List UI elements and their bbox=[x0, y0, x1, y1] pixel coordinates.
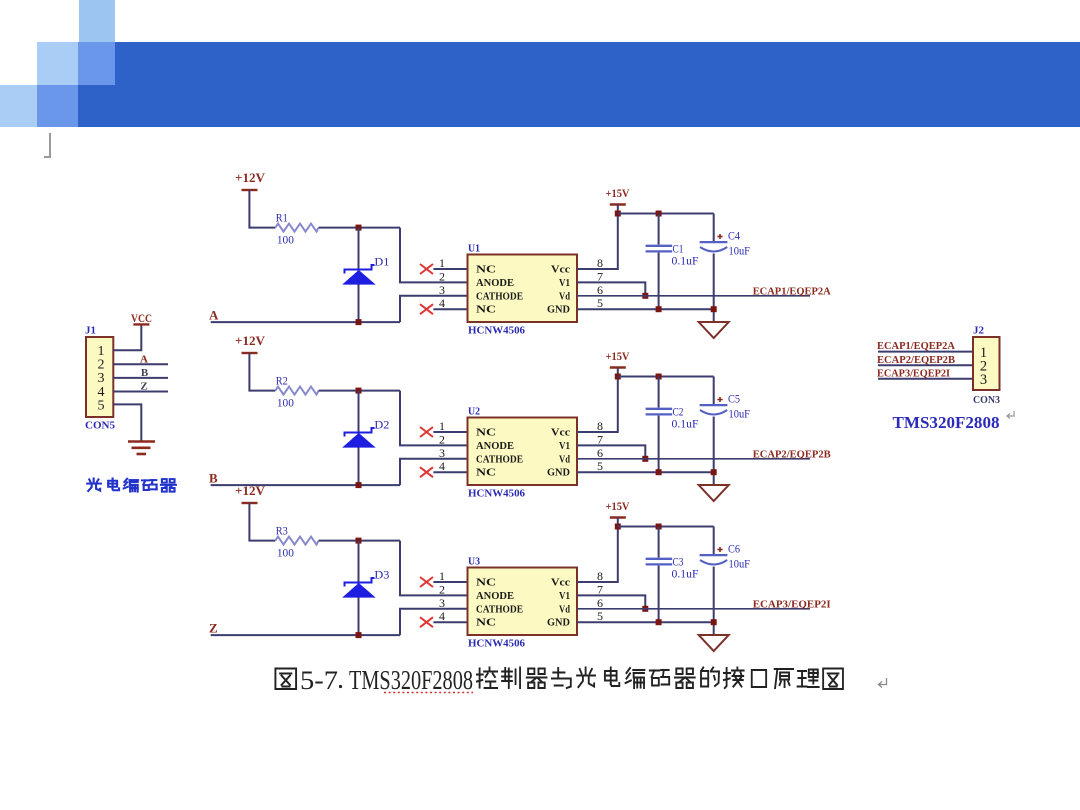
svg-text:R1: R1 bbox=[276, 211, 288, 225]
plus sign of C5 bbox=[717, 397, 722, 402]
wire GND pin 5 of U2 bbox=[577, 471, 714, 473]
wire Z line up to CATHODE pin 3 of U3 bbox=[400, 609, 468, 635]
svg-text:3: 3 bbox=[439, 596, 445, 610]
resistor R3 bbox=[275, 537, 318, 545]
svg-text:100: 100 bbox=[277, 396, 294, 410]
diode D3 branch wire bbox=[358, 541, 360, 636]
svg-text:B: B bbox=[209, 470, 218, 485]
svg-text:6: 6 bbox=[597, 283, 603, 297]
wire net ECAP2/EQEP2B to J2 pin 2 bbox=[878, 364, 973, 366]
wire R3 to node bbox=[319, 540, 400, 542]
junction C4 bottom bbox=[711, 306, 717, 312]
svg-text:Vcc: Vcc bbox=[551, 265, 571, 276]
diode D2 bbox=[345, 428, 375, 447]
svg-text:NC: NC bbox=[476, 428, 496, 439]
svg-text:1: 1 bbox=[439, 569, 445, 583]
pin 4 stub of U1 bbox=[433, 308, 467, 310]
svg-text:100: 100 bbox=[277, 546, 294, 560]
optocoupler U2 body bbox=[468, 418, 578, 486]
junction +15V rail channel 2 bbox=[615, 374, 621, 380]
svg-text:7: 7 bbox=[597, 432, 603, 446]
svg-text:NC: NC bbox=[476, 578, 496, 589]
no-connect X on pin 1 of U3 bbox=[420, 577, 433, 587]
svg-text:10uF: 10uF bbox=[729, 244, 751, 258]
svg-text:A: A bbox=[209, 307, 219, 322]
svg-text:C5: C5 bbox=[728, 392, 740, 406]
wire B line up to CATHODE pin 3 of U2 bbox=[400, 459, 468, 485]
svg-text:ECAP3/EQEP2I: ECAP3/EQEP2I bbox=[753, 598, 831, 610]
svg-text:+12V: +12V bbox=[235, 483, 266, 498]
label 光电编码器 (photoelectric encoder) bbox=[87, 478, 101, 490]
junction C6 bottom bbox=[711, 619, 717, 625]
svg-text:C4: C4 bbox=[728, 229, 740, 243]
svg-text:CATHODE: CATHODE bbox=[476, 604, 523, 615]
wire J1 pin 2 stub net A bbox=[113, 363, 168, 365]
junction C2 bottom bbox=[656, 469, 662, 475]
pin 1 stub of U2 bbox=[433, 431, 467, 433]
junction V1/Vd channel 1 bbox=[642, 293, 648, 299]
svg-text:ECAP1/EQEP2A: ECAP1/EQEP2A bbox=[877, 340, 955, 352]
ground symbol channel 2 bbox=[699, 485, 729, 501]
svg-text:TMS320F2808: TMS320F2808 bbox=[893, 413, 1000, 432]
svg-text:CATHODE: CATHODE bbox=[476, 291, 523, 302]
svg-text:Vd: Vd bbox=[559, 291, 570, 302]
svg-text:100: 100 bbox=[277, 233, 294, 247]
connector J2 body bbox=[973, 337, 1000, 390]
svg-text:U2: U2 bbox=[468, 407, 480, 418]
net line Z (left) bbox=[211, 634, 400, 636]
capacitor C2 bbox=[658, 377, 660, 408]
svg-text:0.1uF: 0.1uF bbox=[672, 417, 699, 431]
plus sign of C6 bbox=[717, 547, 722, 552]
junction C1 bottom bbox=[656, 306, 662, 312]
svg-text:1: 1 bbox=[439, 256, 445, 270]
svg-text:R3: R3 bbox=[276, 524, 288, 538]
power VCC symbol bbox=[133, 323, 149, 325]
svg-text:Vcc: Vcc bbox=[551, 428, 571, 439]
svg-text:5: 5 bbox=[98, 398, 105, 413]
no-connect X on pin 4 of U2 bbox=[420, 467, 433, 477]
junction at R3 output bbox=[356, 538, 362, 544]
wire +15V rail to capacitors channel 1 bbox=[618, 213, 714, 215]
junction of D2 on B line bbox=[356, 482, 362, 488]
svg-text:CON3: CON3 bbox=[973, 394, 1000, 406]
capacitor C4 electrolytic bbox=[713, 214, 715, 243]
wire +15V to Vcc pin 8 of U3 bbox=[577, 518, 618, 583]
wire V1 pin 7 of U1 to Vd bbox=[577, 282, 645, 295]
wire GND pin 5 of U3 bbox=[577, 621, 714, 623]
capacitor C6 electrolytic bbox=[713, 527, 715, 556]
svg-text:+12V: +12V bbox=[235, 333, 266, 348]
net line B (left) bbox=[211, 484, 400, 486]
svg-text:D3: D3 bbox=[374, 568, 389, 582]
svg-text:Vd: Vd bbox=[559, 454, 570, 465]
svg-text:Z: Z bbox=[140, 381, 147, 393]
svg-text:8: 8 bbox=[597, 256, 603, 270]
svg-text:5: 5 bbox=[597, 609, 603, 623]
capacitor C1 bbox=[658, 214, 660, 245]
svg-text:GND: GND bbox=[547, 305, 570, 316]
svg-text:V1: V1 bbox=[559, 278, 570, 289]
svg-text:J1: J1 bbox=[85, 326, 96, 337]
no-connect X on pin 1 of U1 bbox=[420, 264, 433, 274]
svg-text:CON5: CON5 bbox=[85, 420, 115, 432]
svg-text:Vd: Vd bbox=[559, 604, 570, 615]
wire A line up to CATHODE pin 3 of U1 bbox=[400, 296, 468, 322]
wire +15V to Vcc pin 8 of U1 bbox=[577, 205, 618, 270]
caption 图5-7 TMS320F2808 controller and photoelectric encoder interface schematic bbox=[275, 669, 296, 690]
svg-text:+15V: +15V bbox=[606, 499, 630, 513]
ground symbol channel 1 bbox=[699, 322, 729, 338]
junction +15V rail channel 3 bbox=[615, 524, 621, 530]
svg-text:R2: R2 bbox=[276, 374, 288, 388]
junction C2 top bbox=[656, 374, 662, 380]
wire Vd pin 6 of U2 net ECAP2/EQEP2B bbox=[577, 458, 810, 460]
junction V1/Vd channel 2 bbox=[642, 456, 648, 462]
svg-text:C6: C6 bbox=[728, 542, 740, 556]
wire J1 pin 3 stub net B bbox=[113, 377, 168, 379]
svg-text:ANODE: ANODE bbox=[476, 591, 514, 602]
svg-text:ECAP2/EQEP2B: ECAP2/EQEP2B bbox=[877, 354, 956, 366]
wire GND pin 5 of U1 bbox=[577, 308, 714, 310]
plus sign of C4 bbox=[717, 234, 722, 239]
svg-text:ECAP1/EQEP2A: ECAP1/EQEP2A bbox=[753, 285, 831, 297]
junction at R2 output bbox=[356, 388, 362, 394]
gray corner bracket mark bbox=[49, 133, 51, 157]
no-connect X on pin 4 of U3 bbox=[420, 617, 433, 627]
svg-text:NC: NC bbox=[476, 618, 496, 629]
ground symbol channel 3 bbox=[699, 635, 729, 651]
pin 1 stub of U3 bbox=[433, 581, 467, 583]
diode D1 bbox=[345, 265, 375, 284]
diode D3 bbox=[345, 578, 375, 597]
diode D2 branch wire bbox=[358, 391, 360, 486]
wire Vd pin 6 of U1 net ECAP1/EQEP2A bbox=[577, 295, 810, 297]
junction C3 bottom bbox=[656, 619, 662, 625]
svg-text:2: 2 bbox=[439, 582, 445, 596]
resistor R2 bbox=[275, 387, 318, 395]
svg-text:+15V: +15V bbox=[606, 186, 630, 200]
pin 4 stub of U2 bbox=[433, 471, 467, 473]
net line A (left) bbox=[211, 321, 400, 323]
capacitor C3 bbox=[658, 527, 660, 558]
svg-text:ECAP3/EQEP2I: ECAP3/EQEP2I bbox=[877, 367, 950, 379]
svg-text:5: 5 bbox=[597, 459, 603, 473]
optocoupler U3 body bbox=[468, 568, 578, 636]
wire node down to ANODE pin 2 of U3 bbox=[400, 541, 468, 596]
wire +15V rail to capacitors channel 3 bbox=[618, 526, 714, 528]
svg-text:7: 7 bbox=[597, 582, 603, 596]
svg-text:+12V: +12V bbox=[235, 170, 266, 185]
svg-text:5-7: 5-7 bbox=[300, 666, 338, 695]
paragraph return mark after caption bbox=[879, 678, 887, 688]
wire V1 pin 7 of U2 to Vd bbox=[577, 445, 645, 458]
svg-text:10uF: 10uF bbox=[729, 407, 751, 421]
svg-text:5: 5 bbox=[597, 296, 603, 310]
paragraph return mark after TMS320F2808 bbox=[1007, 411, 1014, 419]
svg-text:Vcc: Vcc bbox=[551, 578, 571, 589]
junction C5 bottom bbox=[711, 469, 717, 475]
svg-text:CATHODE: CATHODE bbox=[476, 454, 523, 465]
svg-text:8: 8 bbox=[597, 419, 603, 433]
svg-text:2: 2 bbox=[439, 269, 445, 283]
svg-text:0.1uF: 0.1uF bbox=[672, 567, 699, 581]
wire J1 pin 1 to VCC bbox=[113, 324, 141, 350]
junction of D1 on A line bbox=[356, 319, 362, 325]
junction of D3 on Z line bbox=[356, 632, 362, 638]
svg-text:V1: V1 bbox=[559, 591, 570, 602]
svg-text:1: 1 bbox=[439, 419, 445, 433]
wire node down to ANODE pin 2 of U2 bbox=[400, 391, 468, 446]
svg-text:ANODE: ANODE bbox=[476, 278, 514, 289]
wire +12V stem to R3 bbox=[249, 503, 275, 541]
svg-text:6: 6 bbox=[597, 446, 603, 460]
svg-text:ANODE: ANODE bbox=[476, 441, 514, 452]
ground symbol at J1 bbox=[128, 440, 155, 443]
svg-text:J2: J2 bbox=[973, 326, 984, 337]
wire Vd pin 6 of U3 net ECAP3/EQEP2I bbox=[577, 608, 810, 610]
svg-text:TMS320F2808: TMS320F2808 bbox=[349, 665, 473, 695]
wire node down to ANODE pin 2 of U1 bbox=[400, 228, 468, 283]
wire V1 pin 7 of U3 to Vd bbox=[577, 595, 645, 608]
wire R1 to node bbox=[319, 227, 400, 229]
svg-text:U1: U1 bbox=[468, 244, 480, 255]
svg-text:GND: GND bbox=[547, 618, 570, 629]
svg-text:GND: GND bbox=[547, 468, 570, 479]
svg-text:U3: U3 bbox=[468, 557, 480, 568]
junction at R1 output bbox=[356, 225, 362, 231]
svg-text:4: 4 bbox=[439, 296, 445, 310]
svg-text:3: 3 bbox=[439, 446, 445, 460]
no-connect X on pin 4 of U1 bbox=[420, 304, 433, 314]
slide header decorative squares bbox=[79, 0, 115, 42]
wire +15V to Vcc pin 8 of U2 bbox=[577, 368, 618, 433]
svg-text:VCC: VCC bbox=[131, 311, 152, 325]
svg-text:8: 8 bbox=[597, 569, 603, 583]
junction C3 top bbox=[656, 524, 662, 530]
connector J1 body bbox=[86, 337, 113, 417]
junction +15V rail channel 1 bbox=[615, 211, 621, 217]
svg-text:HCNW4506: HCNW4506 bbox=[468, 325, 525, 337]
svg-text:HCNW4506: HCNW4506 bbox=[468, 638, 525, 650]
svg-text:ECAP2/EQEP2B: ECAP2/EQEP2B bbox=[753, 448, 832, 460]
svg-text:Z: Z bbox=[209, 620, 218, 635]
svg-text:D2: D2 bbox=[374, 418, 389, 432]
spellcheck red dotted underline bbox=[384, 692, 473, 694]
svg-text:HCNW4506: HCNW4506 bbox=[468, 488, 525, 500]
wire +15V rail to capacitors channel 2 bbox=[618, 376, 714, 378]
optocoupler U1 body bbox=[468, 255, 578, 323]
svg-text:D1: D1 bbox=[374, 255, 389, 269]
svg-text:V1: V1 bbox=[559, 441, 570, 452]
svg-text:7: 7 bbox=[597, 269, 603, 283]
svg-text:4: 4 bbox=[439, 609, 445, 623]
wire net ECAP3/EQEP2I to J2 pin 3 bbox=[878, 378, 973, 380]
pin 4 stub of U3 bbox=[433, 621, 467, 623]
svg-text:4: 4 bbox=[439, 459, 445, 473]
svg-text:NC: NC bbox=[476, 468, 496, 479]
diode D1 branch wire bbox=[358, 228, 360, 323]
svg-text:3: 3 bbox=[980, 372, 987, 388]
svg-text:A: A bbox=[140, 353, 148, 365]
wire +12V stem to R2 bbox=[249, 353, 275, 391]
no-connect X on pin 1 of U2 bbox=[420, 427, 433, 437]
svg-text:NC: NC bbox=[476, 305, 496, 316]
wire +12V stem to R1 bbox=[249, 190, 275, 228]
wire J1 pin 5 to ground bbox=[113, 404, 141, 441]
svg-text:B: B bbox=[141, 367, 149, 379]
wire net ECAP1/EQEP2A to J2 pin 1 bbox=[878, 351, 973, 353]
pin 1 stub of U1 bbox=[433, 268, 467, 270]
capacitor C5 electrolytic bbox=[713, 377, 715, 406]
svg-text:+15V: +15V bbox=[606, 349, 630, 363]
svg-text:NC: NC bbox=[476, 265, 496, 276]
svg-text:6: 6 bbox=[597, 596, 603, 610]
wire R2 to node bbox=[319, 390, 400, 392]
junction C1 top bbox=[656, 211, 662, 217]
junction V1/Vd channel 3 bbox=[642, 606, 648, 612]
svg-text:3: 3 bbox=[439, 283, 445, 297]
svg-text:0.1uF: 0.1uF bbox=[672, 254, 699, 268]
svg-text:10uF: 10uF bbox=[729, 557, 751, 571]
resistor R1 bbox=[275, 224, 318, 232]
wire J1 pin 4 stub net Z bbox=[113, 391, 168, 393]
svg-text:2: 2 bbox=[439, 432, 445, 446]
